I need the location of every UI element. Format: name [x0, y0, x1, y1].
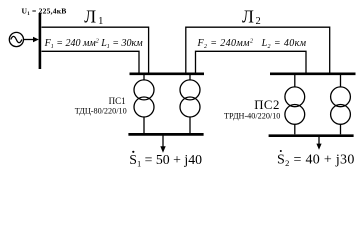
svg-text:ПС1: ПС1: [109, 96, 126, 106]
transformer T2 (ПС1 right): [180, 75, 200, 133]
substation ПС1 HV busbar: [130, 72, 205, 75]
svg-text:S2 = 40 + j30: S2 = 40 + j30: [277, 153, 355, 169]
transformer T4 (ПС2 right): [331, 75, 351, 134]
svg-text:F2 = 240мм2 L2 = 40км: F2 = 240мм2 L2 = 40км: [197, 38, 307, 50]
svg-text:ТДЦ-80/220/10: ТДЦ-80/220/10: [75, 106, 127, 115]
svg-text:ПС2: ПС2: [254, 98, 280, 112]
svg-text:U1 = 225,4кВ: U1 = 225,4кВ: [22, 7, 67, 17]
transformer T1 (ПС1 left): [134, 75, 154, 133]
svg-text:Л2: Л2: [242, 6, 261, 27]
load arrow S1: [160, 136, 165, 153]
wire: line Л1 circuit 2 (bottom): [42, 51, 140, 72]
arrow from generator to bus: [23, 37, 39, 43]
svg-text:Л1: Л1: [84, 6, 103, 27]
svg-text:S1 = 50 + j40: S1 = 50 + j40: [129, 152, 202, 169]
substation ПС1 LV busbar: [128, 133, 203, 136]
substation ПС2 HV busbar: [270, 72, 356, 75]
wire: line Л2 circuit 1 (top): [186, 27, 330, 72]
source bus: [39, 13, 42, 69]
svg-text:F1 = 240 мм2 L1 = 30км: F1 = 240 мм2 L1 = 30км: [44, 38, 144, 50]
substation ПС2 LV busbar: [269, 134, 354, 137]
label S2 = 40 + j30: [277, 150, 355, 168]
wire: line Л1 circuit 1 (top): [42, 27, 149, 72]
transformer T3 (ПС2 left): [285, 75, 305, 134]
load arrow S2: [316, 137, 321, 150]
label S1 = 50 + j40: [129, 151, 202, 169]
wire: line Л2 circuit 2 (bottom): [196, 51, 307, 72]
svg-text:ТРДН-40/220/10: ТРДН-40/220/10: [224, 111, 280, 120]
generator G: [9, 32, 23, 46]
